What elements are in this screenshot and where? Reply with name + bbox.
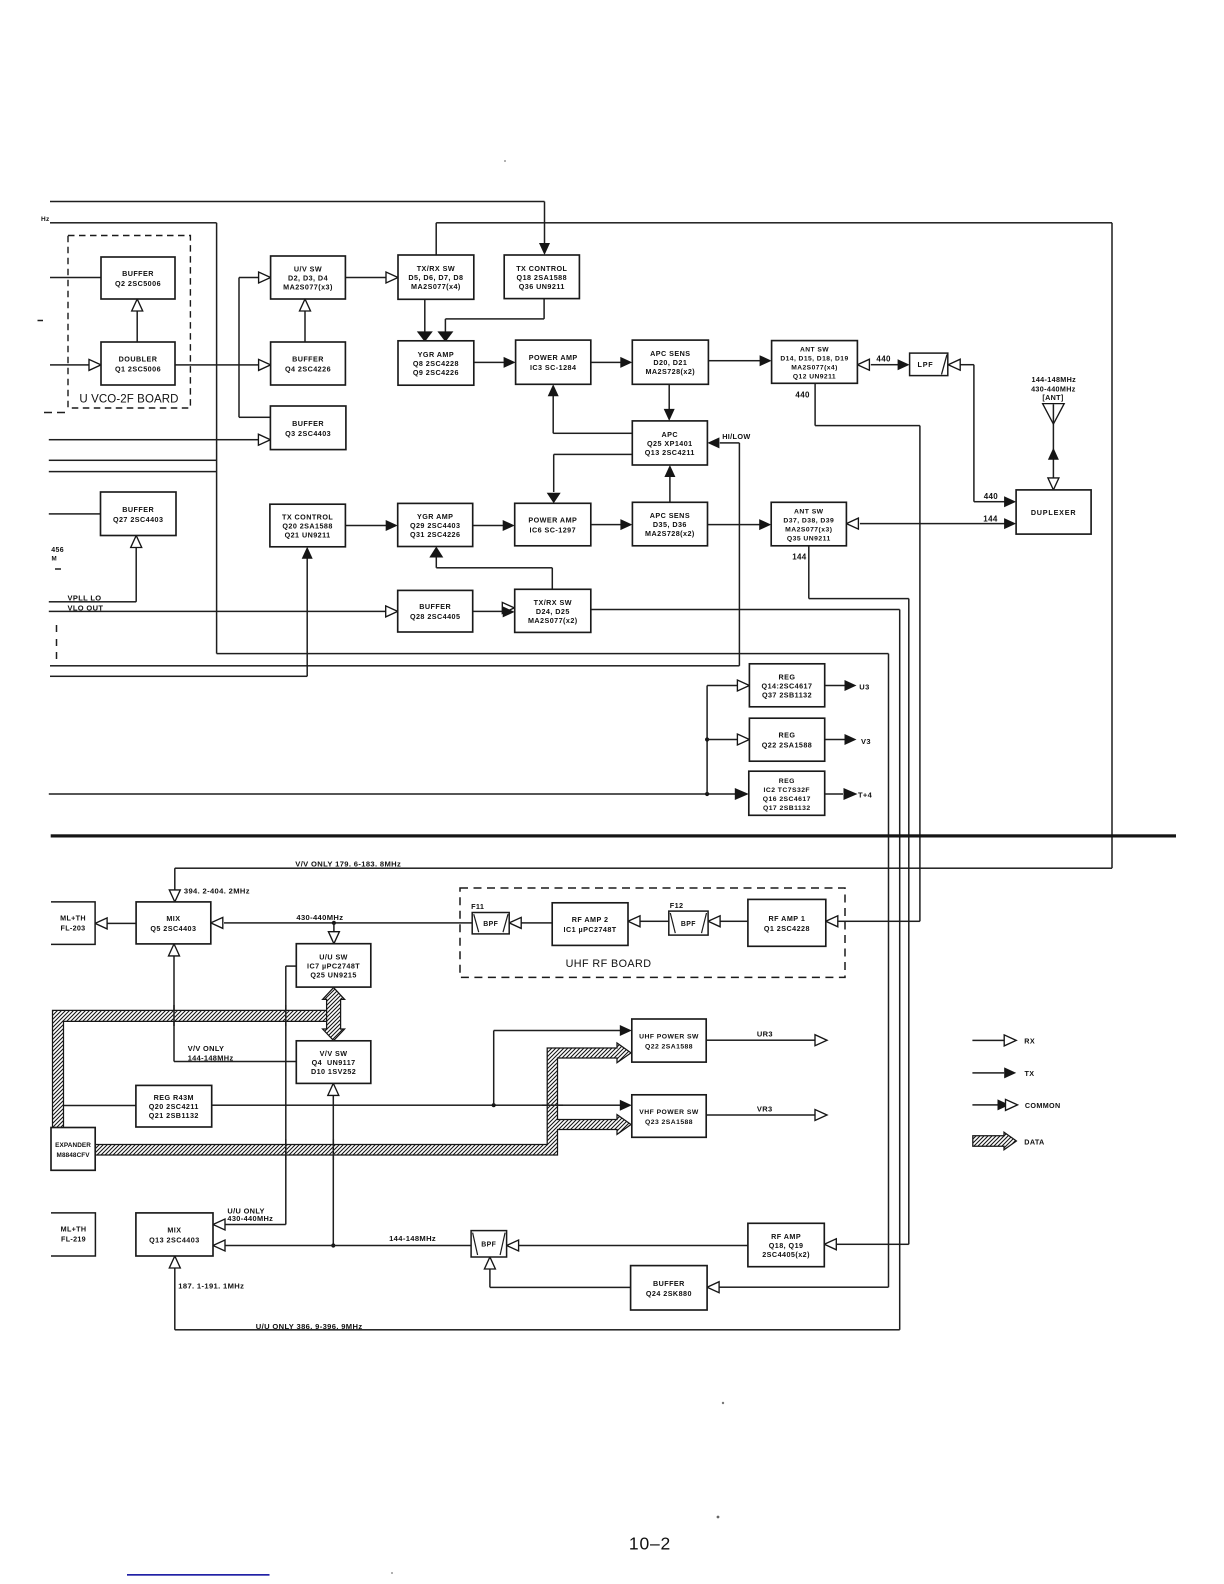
wire APC to POWER AMP IC3: [553, 433, 632, 435]
svg-text:Q1 2SC4228: Q1 2SC4228: [764, 924, 810, 933]
wire APC to POWER AMP IC6: [554, 454, 633, 456]
svg-text:Q20 2SA1588: Q20 2SA1588: [282, 522, 333, 531]
wire BUFFER Q28 to TX/RX D24: [473, 611, 504, 613]
svg-text:IC7 µPC2748T: IC7 µPC2748T: [307, 961, 360, 970]
arrow into MIX Q5 bottom: [169, 944, 180, 956]
svg-text:Q13 2SC4403: Q13 2SC4403: [149, 1236, 200, 1245]
wire line B from left edge y223: [50, 222, 217, 224]
wire VPLL LO: [49, 601, 136, 603]
svg-text:APC SENS: APC SENS: [650, 349, 690, 358]
svg-text:COMMON: COMMON: [1025, 1101, 1061, 1110]
box FL-203 filter: [51, 902, 95, 945]
svg-text:Q35 UN9211: Q35 UN9211: [787, 536, 831, 543]
svg-text:U VCO-2F BOARD: U VCO-2F BOARD: [79, 393, 178, 405]
svg-text:Q1 2SC5006: Q1 2SC5006: [115, 365, 161, 374]
arrow into U/V SW left: [259, 272, 271, 283]
wire RF AMP2 to F12: [641, 921, 669, 923]
box U/U SW IC7: [296, 944, 371, 987]
box APC Q25: [632, 421, 707, 465]
RX arrow into BUFFER Q24: [707, 1282, 719, 1293]
svg-text:T+4: T+4: [858, 791, 873, 800]
arrow into BUFFER Q4: [259, 359, 271, 370]
svg-text:Q4 2SC4226: Q4 2SC4226: [285, 365, 331, 374]
wire HI/LOW line: [50, 665, 739, 667]
box RF AMP 2: [552, 903, 628, 946]
junction dot REG line: [705, 792, 709, 796]
svg-text:440: 440: [876, 355, 891, 364]
svg-text:BUFFER: BUFFER: [653, 1279, 685, 1288]
box MIX Q5: [136, 902, 211, 944]
TX arrow 144 into DUPLEXER: [1004, 518, 1016, 529]
box UHF POWER SW: [632, 1019, 706, 1062]
svg-text:Q25 XP1401: Q25 XP1401: [647, 439, 693, 448]
svg-text:POWER AMP: POWER AMP: [528, 516, 577, 525]
box ANT SW D37: [771, 502, 846, 546]
wire REG vertical: [706, 686, 708, 795]
svg-text:TX: TX: [1025, 1069, 1035, 1078]
svg-text:RX: RX: [1024, 1037, 1035, 1046]
wire REG R43M output line: [212, 1104, 621, 1106]
arrow into BUFFER Q3 left: [258, 434, 270, 445]
svg-text:YGR AMP: YGR AMP: [417, 512, 453, 521]
TX arrow into VHF POWER SW: [620, 1100, 632, 1111]
svg-text:144-148MHz: 144-148MHz: [188, 1054, 234, 1063]
wire big right edge x1112: [1111, 223, 1113, 868]
RX arrow into DOUBLER Q1: [89, 359, 101, 370]
dash fragments y412: [44, 412, 52, 414]
svg-text:D35, D36: D35, D36: [653, 520, 687, 529]
svg-text:144-148MHz: 144-148MHz: [1031, 375, 1076, 384]
svg-text:RF AMP 1: RF AMP 1: [769, 914, 806, 923]
wire BUFFER Q4 to U/V SW: [304, 310, 306, 342]
wire REG Q14 out U3: [825, 685, 846, 687]
wire REG R43M left stub: [64, 1105, 136, 1107]
TX arrow into POWER AMP IC6: [503, 520, 515, 531]
box EXPANDER: [51, 1128, 95, 1171]
RX arrow into MIX Q13 right upper: [213, 1219, 225, 1230]
arrow into APC bottom: [664, 465, 675, 477]
svg-text:D24, D25: D24, D25: [536, 607, 570, 616]
svg-text:TX CONTROL: TX CONTROL: [516, 264, 567, 273]
TX arrow to antenna: [1048, 448, 1059, 460]
dash fragments x56: [56, 625, 58, 632]
svg-text:Q27 2SC4403: Q27 2SC4403: [113, 515, 164, 524]
RX arrow into MIX Q13 right lower: [213, 1240, 225, 1251]
blue footer line: [127, 1574, 270, 1576]
svg-text:YGR AMP: YGR AMP: [418, 350, 454, 359]
svg-text:U/U ONLY 386. 9-396. 9MHz: U/U ONLY 386. 9-396. 9MHz: [256, 1322, 363, 1331]
svg-text:BUFFER: BUFFER: [292, 355, 324, 364]
box TX CONTROL Q20: [270, 504, 346, 547]
arrow into APC top: [664, 409, 675, 421]
arrow into BUFFER Q2 bottom: [132, 299, 143, 311]
wire YGR Q29 to POWER AMP IC6: [473, 525, 504, 527]
wire U/U SW left down to MIX Q13: [286, 965, 297, 967]
svg-text:BUFFER: BUFFER: [122, 269, 154, 278]
svg-text:Q17 2SB1132: Q17 2SB1132: [763, 805, 811, 812]
arrow into REG Q22: [737, 734, 749, 745]
svg-text:U/U SW: U/U SW: [319, 952, 348, 961]
wire TX/RX D24 top to YGR Q29 bottom: [552, 568, 554, 590]
wire vertical x888.5 down: [888, 654, 890, 1288]
data bus EXPANDER to POWER SW: [95, 1043, 631, 1155]
svg-text:Q3 2SC4403: Q3 2SC4403: [285, 429, 331, 438]
svg-text:Q8 2SC4228: Q8 2SC4228: [413, 359, 459, 368]
svg-text:REG: REG: [779, 778, 795, 785]
svg-text:MA2S077(x2): MA2S077(x2): [528, 616, 578, 625]
svg-text:Q18 2SA1588: Q18 2SA1588: [517, 273, 568, 282]
svg-text:REG: REG: [779, 731, 796, 740]
speck dot 3: [717, 1516, 720, 1519]
wire LPF right to duplexer 440: [961, 364, 974, 366]
svg-text:Q12 UN9211: Q12 UN9211: [793, 374, 836, 381]
svg-text:Q37 2SB1132: Q37 2SB1132: [762, 690, 812, 699]
svg-text:V3: V3: [861, 737, 871, 746]
wire ANT SW D14 to LPF: [871, 364, 898, 366]
speck dot 1: [504, 160, 506, 162]
svg-text:Hz: Hz: [41, 216, 50, 223]
svg-text:[ANT]: [ANT]: [1042, 393, 1063, 402]
svg-text:430-440MHz: 430-440MHz: [1031, 384, 1076, 393]
box BUFFER Q27: [101, 492, 177, 536]
svg-text:144-148MHz: 144-148MHz: [389, 1234, 436, 1243]
legend COMMON: [972, 1104, 999, 1106]
wire REG Q22 out V3: [825, 739, 846, 741]
svg-text:REG R43M: REG R43M: [154, 1093, 194, 1102]
wire branch into BUFFER Q3 upper: [239, 417, 270, 419]
data bus EXPANDER up loop: [53, 1010, 328, 1127]
RX arrow into RF AMP Q18 right: [824, 1239, 836, 1250]
wire 144 line to duplexer: [860, 523, 1005, 525]
svg-text:UHF POWER SW: UHF POWER SW: [639, 1034, 699, 1041]
svg-text:APC SENS: APC SENS: [650, 511, 690, 520]
svg-text:D14, D15, D18, D19: D14, D15, D18, D19: [780, 356, 848, 363]
junction dot 144-148: [331, 1243, 335, 1247]
svg-text:D20, D21: D20, D21: [653, 358, 687, 367]
wire crossing x333.3: [333, 1139, 335, 1160]
svg-text:DATA: DATA: [1024, 1138, 1044, 1147]
box APC SENS D35: [632, 502, 707, 546]
svg-text:IC2 TC7S32F: IC2 TC7S32F: [764, 787, 811, 794]
svg-text:Q16 2SC4617: Q16 2SC4617: [763, 796, 811, 803]
wire into BUFFER Q27: [49, 513, 101, 515]
svg-text:Q20 2SC4211: Q20 2SC4211: [149, 1102, 199, 1111]
wire F12 to RF AMP1: [721, 921, 748, 923]
arrow into TX/RX SW left: [386, 272, 398, 283]
box RF AMP 1: [748, 899, 826, 946]
svg-text:430-440MHz: 430-440MHz: [227, 1214, 273, 1223]
svg-text:MA2S728(x2): MA2S728(x2): [645, 367, 695, 376]
svg-text:ANT SW: ANT SW: [800, 347, 829, 354]
svg-text:456: 456: [51, 547, 64, 554]
wire VLO OUT: [49, 611, 386, 613]
wire F11 to RF AMP2: [522, 922, 553, 924]
arrow into POWER AMP IC6 top: [547, 493, 561, 504]
wire into BUFFER Q24 right: [719, 1286, 889, 1288]
svg-text:REG: REG: [779, 672, 796, 681]
box DOUBLER Q1: [101, 342, 175, 385]
svg-text:D5, D6, D7, D8: D5, D6, D7, D8: [408, 273, 463, 282]
svg-text:VHF POWER SW: VHF POWER SW: [639, 1109, 699, 1116]
svg-text:VPLL LO: VPLL LO: [68, 593, 102, 602]
svg-text:MA2S077(x4): MA2S077(x4): [791, 365, 838, 372]
box TX/RX SW D5-D8: [398, 255, 474, 299]
box F12 BPF: [669, 911, 708, 935]
svg-text:D37, D38, D39: D37, D38, D39: [783, 518, 834, 525]
box ANT SW D14: [772, 341, 858, 384]
svg-text:RF AMP: RF AMP: [771, 1232, 801, 1241]
arrow into REG IC2: [735, 788, 749, 800]
dashed U VCO-2F BOARD outline: [68, 236, 190, 409]
data bus double arrow U/U-V/V SW: [323, 988, 345, 1041]
box POWER AMP IC6: [515, 503, 591, 546]
RX arrow into F11 BPF right: [509, 917, 521, 928]
TX arrow into TX CONTROL Q18 top: [539, 243, 550, 255]
svg-text:D2, D3, D4: D2, D3, D4: [288, 274, 328, 283]
box POWER AMP IC3: [516, 340, 591, 384]
antenna feed line: [1053, 424, 1055, 490]
wire APC SENS to ANT SW D14: [708, 360, 760, 362]
wire 440 into RF AMP 1: [838, 921, 920, 923]
TX arrow into POWER AMP IC3: [504, 357, 516, 368]
antenna symbol: [1043, 404, 1065, 425]
svg-text:F11: F11: [471, 902, 484, 911]
svg-text:U/V SW: U/V SW: [294, 265, 322, 274]
svg-text:BPF: BPF: [681, 921, 696, 928]
svg-text:144: 144: [792, 553, 807, 562]
section divider thick line: [51, 834, 1176, 837]
svg-text:MIX: MIX: [167, 1226, 181, 1235]
wire TX/RX D24 right long: [591, 609, 900, 611]
box REG Q14: [749, 664, 824, 707]
svg-text:VR3: VR3: [757, 1105, 773, 1114]
svg-text:MA2S077(x4): MA2S077(x4): [411, 282, 461, 291]
wire TX CONTROL Q20 bottom: [306, 558, 308, 676]
svg-text:Q13 2SC4211: Q13 2SC4211: [645, 448, 695, 457]
RX arrow into BUFFER Q28: [386, 606, 398, 617]
wire V/V ONLY 179.6-183.8MHz line: [175, 867, 1112, 869]
box BUFFER Q28: [398, 590, 473, 632]
wire crossing x285.8: [285, 1005, 287, 1026]
RX arrow into BPF144 right: [507, 1240, 519, 1251]
box VHF POWER SW: [632, 1095, 706, 1138]
wire REG IC2 out T+4: [825, 793, 843, 795]
wire into BUFFER Q2: [50, 277, 101, 279]
wire TX/RX SW down to YGR AMP: [424, 299, 426, 332]
TX arrow into LPF left: [898, 359, 910, 370]
svg-text:F12: F12: [670, 901, 684, 910]
svg-text:Q25 UN9215: Q25 UN9215: [310, 970, 356, 979]
wire into REG Q22: [707, 739, 738, 741]
svg-text:V/V ONLY 179. 6-183. 8MHz: V/V ONLY 179. 6-183. 8MHz: [295, 860, 401, 869]
svg-text:TX/RX SW: TX/RX SW: [417, 264, 455, 273]
svg-text:Q9 2SC4226: Q9 2SC4226: [413, 368, 459, 377]
TX arrow into ANT SW D14: [760, 355, 772, 366]
TX arrow into APC SENS D35: [620, 519, 632, 530]
box REG Q22: [749, 718, 824, 761]
svg-text:UHF RF BOARD: UHF RF BOARD: [566, 958, 652, 970]
svg-text:Q36 UN9211: Q36 UN9211: [519, 282, 565, 291]
svg-text:Q4 UN9117: Q4 UN9117: [312, 1058, 356, 1067]
svg-text:Q23 2SA1588: Q23 2SA1588: [645, 1119, 693, 1126]
svg-text:2SC4405(x2): 2SC4405(x2): [762, 1250, 810, 1259]
box BPF 144: [471, 1231, 507, 1257]
svg-text:Q18, Q19: Q18, Q19: [769, 1241, 804, 1250]
box U/V SW: [271, 256, 346, 299]
wire TX CONTROL Q20 to YGR Q29: [345, 525, 386, 527]
svg-text:RF AMP 2: RF AMP 2: [572, 915, 609, 924]
wire ANT SW D14 440 down: [814, 383, 816, 425]
arrow into YGR Q29 bottom: [429, 547, 443, 558]
wire V/V ONLY 144-148 into V/V SW: [174, 1061, 296, 1063]
svg-text:UR3: UR3: [757, 1030, 773, 1039]
svg-text:M: M: [52, 556, 58, 563]
svg-text:TX/RX SW: TX/RX SW: [534, 598, 572, 607]
svg-text:MA2S077(x3): MA2S077(x3): [283, 283, 333, 292]
box FL-219 filter: [51, 1213, 95, 1256]
arrow into BPF144 bottom: [484, 1257, 495, 1269]
wire 440 vertical: [973, 365, 975, 502]
wire branch to U/V SW: [239, 277, 259, 279]
legend DATA arrow: [973, 1132, 1017, 1150]
box DUPLEXER: [1016, 490, 1091, 534]
svg-text:V/V SW: V/V SW: [320, 1049, 348, 1058]
wire into REG Q14: [707, 685, 738, 687]
TX arrow into UHF POWER SW: [620, 1025, 632, 1036]
wire 144-148MHz line: [226, 1245, 472, 1247]
svg-text:187. 1-191. 1MHz: 187. 1-191. 1MHz: [178, 1282, 244, 1291]
RX arrow into LPF right: [948, 359, 960, 370]
box LPF: [910, 353, 948, 376]
RX arrow into ANT SW D14 right: [857, 359, 869, 370]
wire REG supply line y794: [49, 793, 738, 795]
wire BPF144 bottom to BUFFER Q24: [489, 1269, 491, 1287]
wire vertical x216.6: [216, 223, 218, 654]
speck dot 2: [722, 1402, 724, 1404]
wire MIX Q5 to FL-203: [108, 923, 137, 925]
wire POWER AMP IC3 to APC SENS: [591, 362, 621, 364]
svg-text:Q21 UN9211: Q21 UN9211: [285, 531, 331, 540]
svg-text:440: 440: [984, 492, 999, 501]
box TX CONTROL Q18: [504, 255, 579, 299]
RX arrow into RF AMP 2 right: [628, 916, 640, 927]
box YGR AMP Q8: [398, 341, 474, 385]
svg-text:MIX: MIX: [166, 914, 180, 923]
svg-text:Q31 2SC4226: Q31 2SC4226: [410, 530, 461, 539]
left edge dash fragment y320: [38, 320, 44, 322]
svg-text:DOUBLER: DOUBLER: [119, 355, 158, 364]
svg-text:M8848CFV: M8848CFV: [57, 1152, 91, 1159]
dashed UHF RF BOARD outline: [460, 888, 845, 977]
svg-text:HI/LOW: HI/LOW: [722, 432, 750, 441]
wire YGR AMP to POWER AMP IC3: [474, 362, 505, 364]
wire DOUBLER Q1 output: [175, 364, 259, 366]
svg-text:DUPLEXER: DUPLEXER: [1031, 508, 1077, 517]
arrow into U/V SW bottom: [300, 299, 311, 311]
box BUFFER Q24: [631, 1266, 708, 1310]
box BUFFER Q4: [271, 342, 346, 385]
RX arrow into DUPLEXER top: [1048, 478, 1059, 490]
svg-text:V/V ONLY: V/V ONLY: [188, 1044, 225, 1053]
svg-text:TX CONTROL: TX CONTROL: [282, 513, 333, 522]
box BUFFER Q2: [101, 257, 175, 299]
wire BPF144 to RF AMP Q18: [519, 1245, 748, 1247]
junction dot REG Q22: [705, 737, 709, 741]
junction dot R43M line: [492, 1103, 496, 1107]
svg-text:POWER AMP: POWER AMP: [529, 353, 578, 362]
wire line C y223 right: [436, 222, 1112, 224]
box F11 BPF: [472, 913, 509, 934]
svg-text:LPF: LPF: [918, 360, 934, 369]
wire VHF POWER SW out VR3: [706, 1114, 815, 1116]
wire APC SENS D20 down to APC: [668, 384, 670, 409]
wire top line A to TX CONTROL Q18: [50, 201, 545, 203]
TX arrow into YGR AMP Q29: [386, 520, 398, 531]
wire branch vertical x239: [238, 278, 240, 418]
wire y653 to right: [217, 653, 889, 655]
svg-text:MA2S728(x2): MA2S728(x2): [645, 529, 695, 538]
wire POWER AMP IC6 to APC SENS D35: [591, 524, 621, 526]
svg-text:BPF: BPF: [483, 921, 498, 928]
wire into DOUBLER Q1: [50, 364, 90, 366]
svg-text:144: 144: [983, 515, 998, 524]
dash fragment y569: [55, 568, 61, 570]
box YGR AMP Q29: [398, 503, 473, 546]
wire U/V SW to TX/RX SW: [345, 277, 386, 279]
svg-text:Q28 2SC4405: Q28 2SC4405: [410, 612, 461, 621]
wire y471 section top: [49, 471, 217, 473]
RX arrow into RF AMP 1 right: [826, 916, 838, 927]
TX arrow2 into YGR AMP top: [437, 331, 453, 342]
wire U/U ONLY 386.9-396.9MHz: [175, 1329, 900, 1331]
svg-text:FL-219: FL-219: [61, 1235, 86, 1244]
TX arrow 440 into DUPLEXER: [1004, 496, 1016, 507]
wire APC SENS D35 to ANT SW D37: [708, 524, 761, 526]
legend RX: [972, 1040, 1004, 1042]
svg-text:FL-203: FL-203: [61, 924, 86, 933]
RX arrow into MIX Q5 right: [211, 917, 223, 928]
wire APC SENS D35 up to APC: [669, 477, 671, 503]
wire V/V SW bottom down: [333, 1096, 335, 1246]
wire 144 into RF AMP Q18: [837, 1244, 909, 1246]
svg-text:IC1 µPC2748T: IC1 µPC2748T: [564, 925, 617, 934]
wire into BUFFER Q3: [49, 439, 259, 441]
svg-text:Q14:2SC4617: Q14:2SC4617: [762, 681, 813, 690]
junction dot 430-440: [332, 921, 336, 925]
TX arrow into APC SENS D20: [620, 357, 632, 368]
RX arrow into FL-203: [95, 918, 107, 929]
speck dot 4: [391, 1572, 393, 1574]
TX arrow into ANT SW D37: [759, 519, 771, 530]
arrow into REG Q14: [737, 680, 749, 691]
svg-text:Q29 2SC4403: Q29 2SC4403: [410, 521, 461, 530]
RX arrow into MIX Q5 top: [169, 890, 180, 902]
common arrow into TX/RX D24 left: [502, 602, 514, 613]
svg-text:BUFFER: BUFFER: [419, 602, 451, 611]
box BUFFER Q3: [270, 406, 346, 450]
RX arrow into U/U SW top: [328, 932, 339, 944]
svg-text:IC6 SC-1297: IC6 SC-1297: [530, 526, 577, 535]
svg-text:10–2: 10–2: [629, 1534, 671, 1554]
svg-text:D10 1SV252: D10 1SV252: [311, 1067, 356, 1076]
svg-text:BPF: BPF: [481, 1242, 496, 1249]
wire 430-440MHz line: [224, 922, 472, 924]
wire ANT SW D37 144 down: [808, 546, 810, 599]
arrow into POWER AMP IC3 bottom: [548, 384, 559, 396]
svg-text:440: 440: [795, 391, 810, 400]
svg-text:ANT SW: ANT SW: [794, 509, 824, 516]
svg-text:Q21 2SB1132: Q21 2SB1132: [149, 1111, 199, 1120]
